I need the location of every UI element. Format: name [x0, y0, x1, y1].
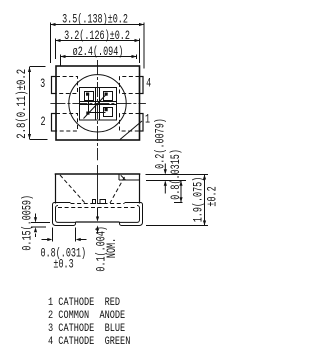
svg-text:3: 3 [40, 78, 45, 92]
svg-text:2.8(0.11)±0.2: 2.8(0.11)±0.2 [15, 69, 29, 139]
svg-text:±0.2: ±0.2 [206, 186, 220, 206]
svg-text:NOM.: NOM. [106, 238, 120, 258]
svg-text:1: 1 [145, 113, 150, 127]
svg-text:±0.3: ±0.3 [53, 258, 73, 272]
svg-text:1 CATHODE RED: 1 CATHODE RED [48, 296, 120, 308]
svg-text:2 COMMON ANODE: 2 COMMON ANODE [48, 309, 125, 321]
svg-text:3.5(.138)±0.2: 3.5(.138)±0.2 [62, 13, 128, 27]
svg-text:0.2(.0079): 0.2(.0079) [154, 118, 168, 169]
svg-text:2: 2 [40, 116, 45, 130]
svg-text:4 CATHODE GREEN: 4 CATHODE GREEN [48, 335, 130, 347]
svg-text:3.2(.126)±0.2: 3.2(.126)±0.2 [64, 29, 130, 43]
svg-text:0.8(.0315): 0.8(.0315) [170, 149, 184, 200]
svg-text:1.9(.075): 1.9(.075) [192, 177, 206, 223]
svg-text:ø2.4(.094): ø2.4(.094) [73, 45, 124, 59]
svg-text:0.15(.0059): 0.15(.0059) [21, 195, 35, 251]
svg-text:4: 4 [146, 77, 151, 91]
svg-text:3 CATHODE BLUE: 3 CATHODE BLUE [48, 322, 125, 334]
